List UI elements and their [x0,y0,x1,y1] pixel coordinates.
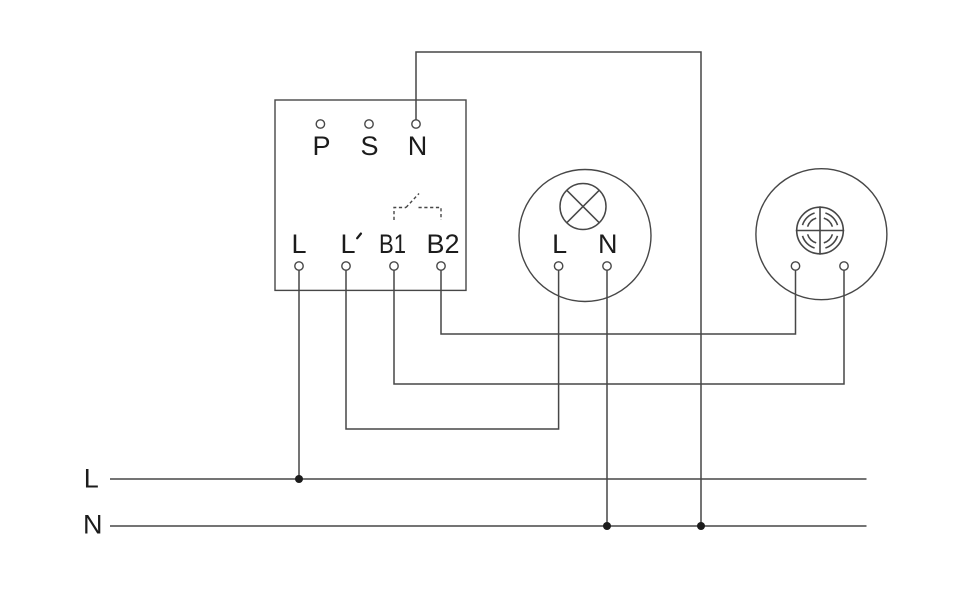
terminal N [412,120,420,128]
sensor symbol (circle with cross and ripple arcs) [796,206,844,254]
svg-text:P: P [312,131,330,161]
svg-text:B2: B2 [426,229,459,259]
relay contact (dashed switch between B1 and B2) [394,194,441,221]
sensor terminal right [840,262,848,270]
junction dot on L bus [295,475,303,483]
N bus line [110,525,867,527]
wire L terminal to L bus [298,270,300,479]
terminal B2 [437,262,445,270]
wire B1 terminal to sensor right terminal [394,270,844,384]
wire from N terminal up and over to N bus [416,52,701,526]
wire lamp N terminal to N bus [606,270,608,526]
terminal P [316,120,324,128]
sensor outer circle [756,169,887,300]
svg-text:L: L [84,464,99,494]
junction dot N wire on N bus [697,522,705,530]
wire B2 terminal to sensor left terminal [441,270,796,334]
terminal L [295,262,303,270]
lamp symbol E1 (circle with X) [560,184,606,230]
terminal L' [342,262,350,270]
svg-text:N: N [83,510,103,540]
svg-text:S: S [360,131,378,161]
svg-text:N: N [408,131,428,161]
L bus line [110,478,867,480]
svg-text:L: L [340,229,355,259]
controller box U1 [275,100,466,290]
wire L' terminal to lamp L terminal [346,270,559,429]
lamp terminal N [603,262,611,270]
svg-text:L: L [552,229,567,259]
svg-text:B1: B1 [379,229,406,259]
junction dot lamp N on N bus [603,522,611,530]
sensor terminal left [791,262,799,270]
lamp terminal L [554,262,562,270]
svg-text:L: L [291,229,306,259]
terminal S [365,120,373,128]
terminal B1 [390,262,398,270]
svg-text:N: N [598,229,618,259]
lamp outer circle [519,170,651,302]
